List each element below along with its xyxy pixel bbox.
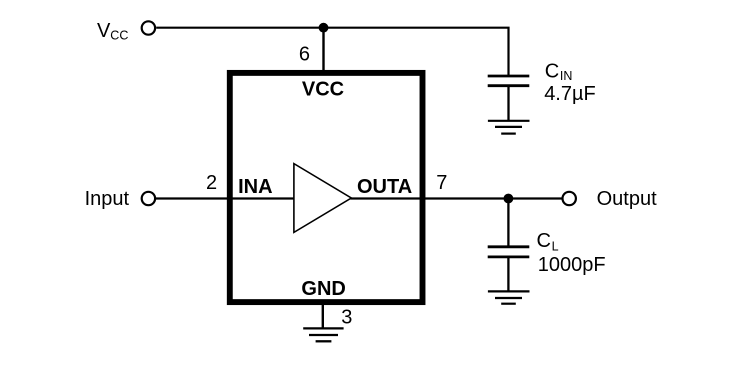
svg-text:C: C	[537, 230, 551, 252]
svg-text:VCC: VCC	[302, 78, 344, 100]
svg-text:V: V	[97, 20, 111, 42]
svg-text:Input: Input	[85, 188, 130, 210]
svg-text:2: 2	[206, 172, 217, 194]
svg-text:6: 6	[299, 44, 310, 66]
svg-text:IN: IN	[560, 69, 573, 83]
svg-text:4.7µF: 4.7µF	[544, 83, 596, 105]
svg-text:OUTA: OUTA	[357, 176, 412, 198]
svg-text:C: C	[545, 61, 559, 83]
svg-text:INA: INA	[238, 176, 272, 198]
svg-text:GND: GND	[301, 278, 345, 300]
svg-text:CC: CC	[110, 29, 128, 43]
svg-text:L: L	[552, 240, 559, 254]
svg-text:1000pF: 1000pF	[538, 254, 606, 276]
svg-text:3: 3	[341, 306, 352, 328]
svg-text:7: 7	[436, 172, 447, 194]
svg-text:Output: Output	[597, 188, 657, 210]
